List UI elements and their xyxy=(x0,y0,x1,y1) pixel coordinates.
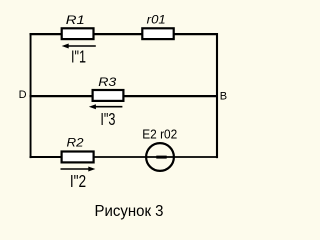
current arrow I"2 xyxy=(61,168,91,170)
current arrow I"1 xyxy=(66,45,96,47)
svg-text:Рисунок 3: Рисунок 3 xyxy=(95,203,164,220)
svg-text:R2: R2 xyxy=(67,135,84,149)
current arrow I"3 xyxy=(93,106,122,108)
svg-text:D: D xyxy=(19,89,27,101)
wire middle-left segment xyxy=(30,95,93,97)
svg-text:I"1: I"1 xyxy=(71,47,86,67)
wire bottom-right segment xyxy=(174,156,218,158)
wire top-left segment xyxy=(30,33,63,35)
wire left vertical xyxy=(30,33,32,158)
svg-text:R1: R1 xyxy=(66,13,85,27)
wire right vertical xyxy=(216,33,218,158)
svg-text:I"3: I"3 xyxy=(100,109,115,129)
wire middle-right segment xyxy=(124,95,219,97)
resistor R3 xyxy=(93,90,124,101)
wire bottom-middle segment xyxy=(94,156,147,158)
svg-text:R3: R3 xyxy=(98,75,116,89)
wire top-right segment xyxy=(174,33,219,35)
svg-text:I"2: I"2 xyxy=(70,171,86,191)
wire bottom-left segment xyxy=(30,156,62,158)
source internal bar xyxy=(156,156,166,159)
wire top-middle segment xyxy=(94,33,143,35)
resistor R1 xyxy=(62,28,94,39)
wire through source E2 xyxy=(146,156,174,158)
svg-text:r01: r01 xyxy=(147,13,166,27)
svg-text:B: B xyxy=(220,91,227,103)
source E2 r02 circle xyxy=(146,143,174,171)
resistor R2 xyxy=(62,152,94,163)
resistor r01 xyxy=(142,28,173,39)
svg-text:E2 r02: E2 r02 xyxy=(142,127,177,142)
